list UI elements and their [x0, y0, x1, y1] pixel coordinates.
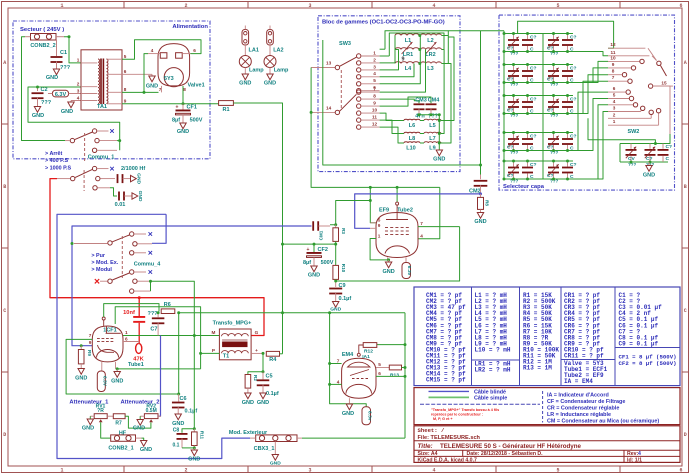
svg-text:GND: GND — [32, 113, 44, 119]
wire bloc mesh pin4 to LR1 — [380, 50, 399, 70]
svg-text:GND: GND — [433, 157, 445, 163]
junction heater gnd node — [116, 367, 119, 370]
junction C8 R11 top — [193, 427, 196, 430]
svg-text:2: 2 — [373, 57, 376, 62]
tube 1CF1 pin7 wire — [66, 339, 179, 394]
wire TA1 pin8 to valve heater — [122, 91, 159, 93]
svg-text:Commu_4: Commu_4 — [134, 262, 162, 268]
svg-text:L3: L3 — [427, 66, 433, 72]
svg-text:1CF1: 1CF1 — [103, 328, 116, 334]
svg-text:500V: 500V — [190, 118, 203, 124]
junction EM4 pin7 — [328, 362, 331, 365]
svg-text:CF2 = 8 µf (500V): CF2 = 8 µf (500V) — [619, 360, 677, 367]
svg-text:GND: GND — [136, 173, 142, 184]
wire red oscillator net — [50, 179, 264, 336]
svg-text:CF = Condensateur de Filtrage: CF = Condensateur de Filtrage — [547, 399, 625, 405]
table component values — [414, 287, 680, 386]
junction bloc bottom rail — [479, 164, 482, 167]
legend divider bar — [542, 391, 544, 423]
svg-text:GND: GND — [382, 269, 394, 275]
svg-text:C9 = 0.1 µf: C9 = 0.1 µf — [619, 340, 659, 347]
capacitor group CR6 trimmer + fixed — [546, 95, 573, 97]
note box Selecteur capa — [499, 15, 675, 190]
junction commu4 tap — [71, 242, 74, 245]
svg-text:M: M — [212, 330, 216, 335]
svg-text:9: 9 — [378, 223, 381, 228]
svg-text:1: 1 — [613, 119, 616, 124]
svg-text:1: 1 — [60, 3, 63, 9]
svg-text:LR2: LR2 — [425, 52, 435, 58]
capacitor group CR5 trimmer + fixed — [506, 95, 533, 97]
wire selecteur row5b to SW2 pin3 — [573, 112, 608, 180]
svg-text:Size: A4: Size: A4 — [418, 451, 438, 457]
svg-text:Secteur ( 245V ): Secteur ( 245V ) — [20, 27, 64, 33]
svg-text:1: 1 — [77, 58, 80, 63]
capacitor group CR1 trimmer + fixed — [506, 33, 533, 35]
svg-text:GND: GND — [111, 379, 123, 385]
svg-text:Valve1: Valve1 — [188, 83, 205, 89]
svg-text:6: 6 — [679, 3, 682, 9]
wire selecteur row5 to SW2 pin4 — [533, 105, 608, 179]
svg-text:6.3V: 6.3V — [55, 92, 67, 98]
svg-text:LR = Inductance réglable: LR = Inductance réglable — [547, 412, 611, 418]
cable blinde RV2 to C7 node — [158, 336, 161, 417]
ground EM4 — [348, 398, 350, 404]
wire mains N to TA1 pin1 — [64, 37, 81, 63]
svg-text:13: 13 — [326, 61, 332, 66]
svg-text:R10: R10 — [341, 264, 346, 273]
svg-text:C?: C? — [530, 97, 537, 103]
svg-text:GND: GND — [257, 400, 269, 406]
inductor L5 — [424, 119, 441, 120]
svg-text:> Arrêt: > Arrêt — [45, 151, 63, 157]
svg-text:CM = Condensateur au Mica (ou: CM = Condensateur au Mica (ou céramique) — [547, 418, 659, 424]
svg-text:GND: GND — [46, 75, 58, 81]
svg-text:C: C — [666, 156, 670, 162]
svg-text:10nf: 10nf — [123, 310, 135, 316]
capacitor CF1 electrolytic — [182, 104, 184, 110]
pin oval red — [136, 343, 142, 353]
svg-text:C6: C6 — [180, 396, 187, 402]
svg-text:SW3: SW3 — [339, 41, 351, 47]
svg-text:CM15 = ? pf: CM15 = ? pf — [426, 377, 466, 384]
ground at TA1 pin4 — [71, 100, 81, 102]
svg-text:R11: R11 — [200, 431, 205, 440]
svg-text:GND: GND — [643, 173, 655, 179]
label 6.3V voltage flag — [53, 90, 69, 97]
svg-text:4: 4 — [77, 95, 80, 100]
svg-text:6: 6 — [378, 371, 381, 376]
wire EF9 pin7 — [418, 226, 460, 228]
svg-text:R13: R13 — [390, 373, 399, 379]
ground of LA2 — [267, 74, 273, 80]
cable blinde modulator run — [57, 214, 250, 458]
svg-text:???: ??? — [147, 311, 158, 317]
legend separator — [420, 403, 540, 405]
capacitor group CR2 trimmer + fixed — [546, 33, 573, 35]
svg-text:5: 5 — [124, 54, 127, 59]
capacitor group CR3 trimmer + fixed — [506, 64, 533, 66]
svg-text:3: 3 — [308, 3, 311, 9]
svg-text:GND: GND — [82, 426, 94, 432]
svg-text:C5: C5 — [266, 374, 273, 380]
capacitor group CR7 trimmer + fixed — [506, 132, 533, 134]
svg-text:Lamp: Lamp — [249, 68, 264, 74]
junction C5 — [262, 370, 265, 373]
junction HT rail left end — [177, 311, 180, 314]
ground of LA1 — [242, 74, 248, 80]
svg-text:Alimentation: Alimentation — [172, 24, 208, 30]
wire R1 output to HT vertical — [233, 103, 282, 313]
svg-text:> Mod. Ex.: > Mod. Ex. — [91, 260, 118, 266]
svg-text:12: 12 — [372, 122, 378, 127]
lamp LA1 — [239, 56, 251, 68]
wire selecteur left rail — [503, 31, 505, 179]
ground of R11 — [193, 448, 195, 450]
wire bloc mesh pin9 to CM4 — [380, 97, 431, 106]
svg-text:500V: 500V — [321, 260, 334, 266]
svg-text:5: 5 — [378, 362, 381, 367]
wire valve pin7 heater return — [161, 86, 163, 93]
junction P pin tap — [199, 352, 202, 355]
wire bloc mesh pin3 to L1 — [380, 36, 395, 63]
svg-text:???: ??? — [41, 100, 52, 106]
resistor R4 — [266, 351, 279, 356]
svg-text:8µf: 8µf — [172, 118, 180, 124]
svg-text:9: 9 — [89, 340, 92, 345]
resistor R3 — [335, 225, 337, 228]
svg-text:C7: C7 — [150, 327, 157, 333]
wire bloc ground rail riser — [323, 40, 481, 165]
svg-text:L10 = ? mH: L10 = ? mH — [475, 346, 511, 353]
wire EM4 pin6 to CBX — [376, 375, 405, 377]
mech link Commu_2 — [83, 170, 85, 191]
svg-text:Lamp: Lamp — [274, 68, 289, 74]
junction R9 on grid — [80, 344, 83, 347]
ground CBX3_1 — [274, 442, 276, 455]
svg-text:GND: GND — [140, 447, 152, 453]
tube 1CF1 pin6 to oval — [123, 342, 139, 344]
wire bloc to selecteur riser — [480, 31, 482, 175]
svg-text:CONB2_1: CONB2_1 — [108, 446, 133, 452]
inductor L3 — [421, 62, 442, 64]
lamp LA2 — [264, 56, 276, 68]
svg-text:6: 6 — [613, 86, 616, 91]
ground of CF2 — [311, 266, 317, 272]
svg-text:0.5M: 0.5M — [146, 408, 157, 414]
wire heater run to transformer P — [117, 368, 200, 370]
wire R4 node down to C5 R2 — [248, 353, 263, 374]
svg-text:EM4: EM4 — [342, 352, 354, 358]
svg-text:GND: GND — [239, 81, 251, 87]
svg-text:0.1µf: 0.1µf — [339, 296, 352, 302]
svg-text:6.3V: 6.3V — [101, 376, 107, 387]
svg-text:Bloc de gammes (OC1-OC2-OC3-PO: Bloc de gammes (OC1-OC2-OC3-PO-MF-GO) — [322, 20, 445, 26]
ground EF9 — [388, 260, 390, 262]
svg-text:CM4: CM4 — [428, 98, 441, 104]
capacitor C4 — [117, 174, 119, 183]
svg-text:2: 2 — [184, 3, 187, 9]
capacitor group CR8 trimmer + fixed — [546, 132, 573, 134]
svg-text:0.01: 0.01 — [115, 202, 126, 208]
svg-text:GND: GND — [172, 421, 184, 427]
wire HT rail TA1 pin9 to R1 — [122, 103, 219, 105]
svg-text:File: TELEMESURE.sch: File: TELEMESURE.sch — [418, 435, 481, 441]
wire EM4 pin7 — [330, 313, 342, 364]
svg-text:R6: R6 — [164, 302, 171, 308]
svg-text:+: + — [176, 105, 179, 111]
resistor R8 vertical — [480, 194, 482, 198]
title block — [414, 426, 680, 463]
junction SW3 pole2 — [310, 111, 313, 114]
junction LR mid — [418, 48, 421, 51]
svg-text:8: 8 — [612, 69, 615, 74]
wire SW3 poles feed — [311, 68, 440, 188]
junction L4-L3 — [418, 62, 421, 65]
wire L2 right branch — [442, 35, 449, 37]
junction R4 left — [262, 352, 265, 355]
svg-text:> Modul: > Modul — [91, 267, 112, 273]
wire modulation drop — [193, 336, 195, 429]
svg-text:"Transfo_MPG+" Transfo bossu à: "Transfo_MPG+" Transfo bossu à 4 fils — [431, 408, 499, 412]
ground of R8 — [480, 209, 482, 212]
svg-text:4: 4 — [151, 48, 154, 53]
lamp LA2 fuse holder — [267, 30, 274, 46]
svg-text:CR11 = ? pf: CR11 = ? pf — [564, 353, 604, 360]
svg-text:3: 3 — [308, 468, 311, 474]
svg-text:4: 4 — [613, 99, 616, 104]
cable blinde EF9 grid — [355, 194, 481, 228]
svg-text:11: 11 — [372, 115, 377, 120]
capacitor 10nf red — [138, 298, 140, 316]
svg-text:4: 4 — [638, 451, 641, 457]
wire CM3 CM4 gnd rail — [419, 114, 439, 116]
svg-text:IA = EM4: IA = EM4 — [564, 378, 593, 385]
svg-text:GND: GND — [242, 400, 254, 406]
ground of CV — [648, 162, 650, 166]
svg-text:C?: C? — [530, 66, 537, 72]
svg-text:11: 11 — [611, 50, 616, 55]
wire bloc mesh 1 — [385, 31, 448, 64]
junction C8 R11 bottom — [182, 447, 194, 449]
svg-text:9: 9 — [373, 101, 376, 106]
wire SW2 to CV group — [588, 118, 655, 143]
wire second top cap to transformer P — [115, 307, 200, 369]
wire L6 left riser — [448, 30, 504, 32]
svg-text:5: 5 — [556, 468, 559, 474]
svg-text:R12: R12 — [364, 349, 373, 355]
svg-text:5: 5 — [378, 217, 381, 222]
svg-text:R1: R1 — [222, 107, 229, 113]
wire selecteur row3b to SW2 pin7 — [573, 81, 608, 113]
svg-text:Id: 1/1: Id: 1/1 — [627, 457, 642, 463]
mech link Commu_4 — [121, 236, 123, 278]
wire CF2 R10 feed — [313, 244, 315, 252]
junction R10 C9 — [334, 280, 337, 283]
resistor R1 — [219, 101, 234, 106]
wire EF9 pin7 drop to R10 C9 node — [336, 227, 460, 281]
svg-text:C?: C? — [570, 162, 577, 168]
svg-text:?R: ?R — [97, 408, 104, 414]
svg-text:12: 12 — [610, 42, 616, 47]
svg-text:4: 4 — [420, 233, 423, 238]
ground at TA1 pin6 — [122, 73, 152, 75]
svg-text:9: 9 — [612, 62, 615, 67]
switch Commu_4 lower — [95, 279, 99, 283]
ground CONB2_1 — [142, 438, 144, 440]
svg-text:R7: R7 — [115, 421, 122, 427]
capacitor C1 — [56, 40, 58, 56]
svg-text:L8: L8 — [409, 136, 415, 142]
capacitor group CV trimmers — [620, 143, 668, 145]
resistor R2 — [245, 375, 251, 389]
ground of C2 — [34, 107, 40, 113]
svg-text:4: 4 — [373, 71, 376, 76]
mech link Commu_1 — [84, 133, 86, 163]
junction Commu_1 — [118, 139, 121, 142]
legend box — [414, 388, 680, 425]
svg-text:2: 2 — [77, 82, 80, 87]
svg-text:> Pur: > Pur — [91, 253, 106, 259]
inductor L6 — [404, 119, 420, 120]
svg-text:D: D — [684, 432, 687, 438]
svg-text:Sheet: /: Sheet: / — [418, 427, 445, 434]
junction C7 top — [157, 311, 160, 314]
svg-text:M, P, G et +: M, P, G et + — [433, 417, 453, 421]
cable blinde grid CM1 — [72, 226, 312, 346]
svg-text:5: 5 — [613, 93, 616, 98]
wire HT rail long — [179, 312, 405, 314]
inductor LR1 variable — [395, 48, 419, 50]
svg-text:7: 7 — [89, 333, 92, 338]
svg-text:2/1000 Hf: 2/1000 Hf — [121, 166, 145, 172]
capacitor C8 — [182, 429, 194, 433]
wire tube1 pin1 C7 M line — [123, 335, 219, 337]
wire mains L to Commu_1 pole — [22, 37, 66, 141]
mech link SW3 — [340, 70, 342, 110]
svg-text:SW2: SW2 — [627, 129, 639, 135]
svg-text:C2: C2 — [41, 87, 48, 93]
svg-text:CBX3_1: CBX3_1 — [254, 446, 275, 452]
wire bloc mesh pin8 to CM3 — [380, 99, 419, 103]
svg-text:C8: C8 — [173, 428, 180, 434]
svg-text:6.3v: 6.3v — [406, 266, 412, 276]
resistor R7 — [113, 414, 125, 419]
svg-text:D: D — [3, 432, 6, 438]
svg-text:IA = Indicateur d'Accord: IA = Indicateur d'Accord — [547, 392, 609, 398]
heater flag 6.3v EM4 — [362, 407, 371, 425]
junction M riser — [193, 334, 196, 337]
junction heater — [143, 91, 146, 94]
capacitor C2 — [37, 87, 39, 91]
svg-text:0.1: 0.1 — [173, 443, 180, 449]
svg-text:10: 10 — [610, 55, 616, 60]
svg-text:GND: GND — [75, 376, 87, 382]
note box Bloc de gammes — [318, 16, 460, 172]
svg-text:TA1: TA1 — [97, 104, 107, 110]
svg-text:L6: L6 — [409, 123, 415, 129]
wire HT drop EM4 — [404, 313, 406, 438]
svg-text:0.1µf: 0.1µf — [266, 391, 279, 397]
svg-text:Selecteur capa: Selecteur capa — [503, 184, 545, 190]
svg-text:Câble simple: Câble simple — [474, 396, 507, 402]
svg-text:GND: GND — [270, 461, 281, 467]
svg-text:L9: L9 — [429, 146, 435, 152]
wire R6 drop to attenuator — [178, 313, 180, 394]
inductor L7 — [424, 132, 441, 133]
svg-text:C1: C1 — [60, 50, 67, 56]
note box Alimentation / Secteur — [13, 21, 210, 159]
inductor L10 — [404, 142, 420, 143]
junction mains N — [68, 35, 71, 38]
svg-text:C?: C? — [530, 162, 537, 168]
svg-text:5Y3: 5Y3 — [164, 76, 174, 82]
wire selecteur row4b to SW2 pin5 — [573, 99, 608, 151]
ground of C6 — [175, 414, 181, 420]
wire bloc mesh pin12 to L10 — [380, 127, 404, 143]
svg-text:2: 2 — [613, 112, 616, 117]
svg-text:2: 2 — [184, 468, 187, 474]
svg-text:A: A — [684, 60, 687, 66]
lamp LA1 fuse holder — [242, 30, 249, 46]
svg-text:C?: C? — [570, 35, 577, 41]
junction CF1 node — [182, 102, 185, 105]
ground of C5 — [260, 393, 266, 399]
legend cable simple — [429, 396, 470, 398]
wire selecteur row4 to SW2 pin6 — [533, 92, 608, 150]
connector CONB2_2 — [31, 34, 57, 41]
wire bloc mesh pin7 riser — [380, 50, 426, 93]
wire heater winding to Commu_1 contacts — [28, 87, 120, 150]
capacitor C3 — [110, 188, 117, 196]
svg-text:L7: L7 — [429, 136, 435, 142]
wire valve pin8 cathode to CF1 node — [182, 86, 184, 104]
ground of C1 — [53, 69, 59, 75]
svg-text:repérées par le constructeur :: repérées par le constructeur : — [431, 413, 483, 417]
resistor R9 — [80, 346, 82, 350]
resistor R6 — [161, 309, 175, 314]
svg-text:8: 8 — [124, 87, 127, 92]
inductor L2 — [421, 34, 442, 36]
svg-text:CF2: CF2 — [318, 247, 328, 253]
svg-text:6: 6 — [193, 48, 196, 53]
svg-text:LA1: LA1 — [249, 48, 259, 54]
svg-text:CR = Condensateur réglable: CR = Condensateur réglable — [547, 405, 619, 411]
svg-text:GND: GND — [308, 273, 320, 279]
svg-text:4: 4 — [432, 468, 435, 474]
svg-text:Tube1: Tube1 — [128, 362, 144, 368]
junction R12 right — [404, 343, 407, 346]
svg-text:R8: R8 — [485, 200, 490, 206]
svg-text:GND: GND — [177, 129, 189, 135]
resistor R12 — [363, 343, 377, 348]
svg-text:4: 4 — [337, 379, 340, 384]
svg-text:+: + — [255, 348, 258, 353]
svg-text:6.3v: 6.3v — [366, 411, 372, 421]
svg-text:C: C — [684, 308, 687, 314]
svg-text:14: 14 — [326, 106, 332, 111]
svg-text:8: 8 — [373, 94, 376, 99]
wire bloc mesh pin10 to L6 — [380, 113, 404, 120]
wire anode top cap to C7 node — [104, 304, 159, 317]
svg-text:L5: L5 — [429, 123, 435, 129]
junction CM2 bottom — [479, 192, 482, 195]
junction EF9 grid node — [369, 199, 372, 202]
svg-text:+: + — [307, 247, 310, 253]
svg-text:3: 3 — [373, 64, 376, 69]
capacitor CF2 electrolytic — [307, 252, 322, 254]
inductor LR2 variable — [421, 48, 442, 50]
